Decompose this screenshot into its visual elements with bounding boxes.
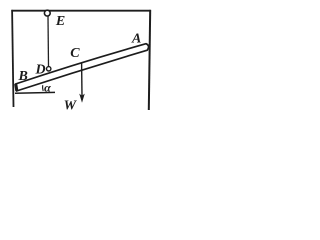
svg-text:E: E (55, 14, 65, 29)
ring at D (47, 67, 51, 71)
weight force arrow shaft at C (81, 63, 83, 96)
string from E to D (47, 16, 50, 66)
svg-text:B: B (18, 69, 28, 84)
svg-text:A: A (131, 31, 141, 46)
wall frame top (ceiling) (11, 10, 150, 12)
arrowhead (80, 94, 84, 101)
svg-text:W: W (64, 98, 78, 113)
wall frame left (12, 10, 13, 107)
angle alpha arc (42, 85, 45, 91)
plank left end cap (16, 84, 17, 91)
wall frame right (149, 10, 150, 110)
horizontal reference line at B (15, 91, 55, 94)
plank AB body (16, 44, 149, 91)
svg-text:C: C (70, 46, 80, 61)
pulley E circle (44, 10, 50, 16)
svg-text:α: α (44, 81, 51, 95)
